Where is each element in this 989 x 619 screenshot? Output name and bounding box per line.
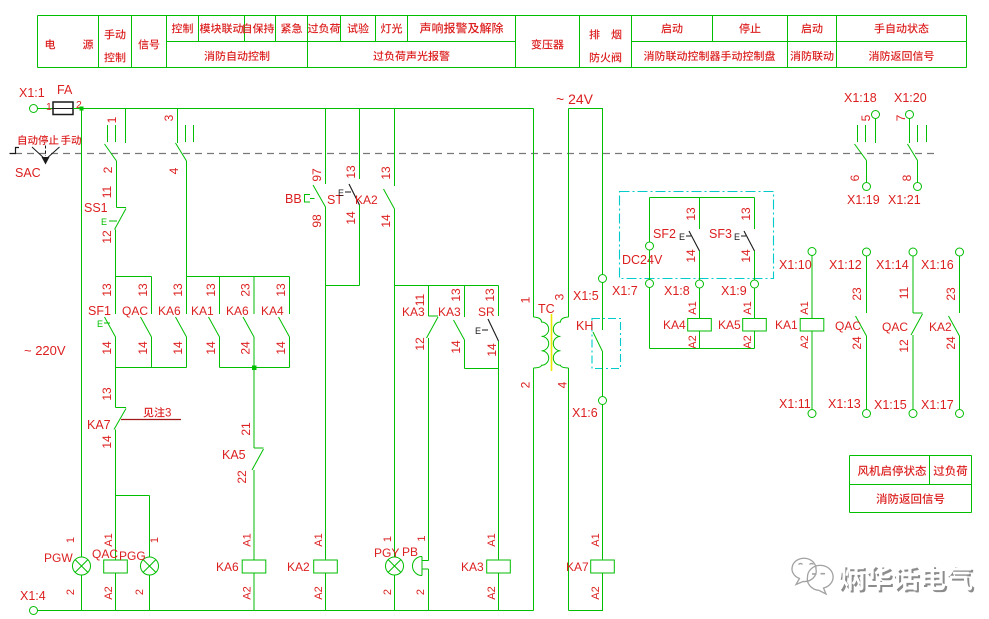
branch rail A top (SS1 output) <box>116 276 152 278</box>
svg-text:X1:1: X1:1 <box>19 86 45 100</box>
start button SF3 (black blade, E actuator) <box>709 198 755 281</box>
svg-text:14: 14 <box>171 341 185 355</box>
relay coil KA2 <box>287 533 337 599</box>
svg-text:KA3: KA3 <box>461 560 484 574</box>
wire QAC coil to bottom rail <box>115 573 117 611</box>
svg-text:5: 5 <box>859 114 873 121</box>
wire lamp PGY to bottom rail <box>394 575 396 611</box>
svg-text:X1:18: X1:18 <box>844 91 877 105</box>
svg-text:11: 11 <box>413 293 427 306</box>
svg-text:14: 14 <box>485 343 499 357</box>
svg-text:11: 11 <box>897 286 911 299</box>
svg-text:A1: A1 <box>486 533 498 546</box>
svg-text:2: 2 <box>134 589 146 595</box>
DC24V bus bar <box>650 197 755 199</box>
start button SF2 (black blade, E actuator) <box>653 198 700 281</box>
wire down to KA2 coil <box>325 286 327 561</box>
selector contact 5-6 (SAC) <box>848 114 876 182</box>
svg-text:BB: BB <box>285 192 302 206</box>
selector SAC position labels <box>15 135 81 180</box>
svg-text:X1:6: X1:6 <box>572 406 598 420</box>
svg-text:A2: A2 <box>313 586 325 599</box>
svg-text:1: 1 <box>65 537 77 543</box>
terminal X1:7 <box>612 280 654 299</box>
title block table (top header) <box>38 16 967 68</box>
svg-text:SAC: SAC <box>15 166 41 180</box>
svg-text:KA7: KA7 <box>87 418 111 432</box>
wire TC secondary pin3 up to 24V bar <box>568 109 570 318</box>
wire X1:8 to KA4 coil <box>699 288 701 319</box>
wire KA6 coil to bottom rail <box>253 573 255 611</box>
svg-text:E: E <box>679 232 685 242</box>
svg-text:X1:4: X1:4 <box>20 589 46 603</box>
watermark text <box>839 565 975 592</box>
selector contact 1-2 (SAC) <box>101 109 126 174</box>
svg-text:4: 4 <box>167 167 181 174</box>
svg-text:KH: KH <box>576 319 593 333</box>
svg-text:97: 97 <box>310 168 324 182</box>
branch rail A bottom <box>116 367 187 369</box>
svg-text:7: 7 <box>894 114 908 121</box>
svg-text:13: 13 <box>379 166 393 180</box>
svg-text:DC24V: DC24V <box>622 253 663 267</box>
svg-text:14: 14 <box>136 341 150 355</box>
wire KA7 coil to branch rail <box>602 573 604 611</box>
relay coil QAC <box>92 533 127 599</box>
svg-text:X1:21: X1:21 <box>888 193 921 207</box>
transformer core <box>551 314 553 371</box>
svg-text:A1: A1 <box>590 533 602 546</box>
wire left column from rail down to lamp PGW <box>81 109 83 558</box>
svg-text:24: 24 <box>239 341 253 355</box>
svg-text:SR: SR <box>478 305 495 319</box>
svg-text:12: 12 <box>413 337 427 351</box>
terminal X1:5 <box>573 275 607 304</box>
svg-text:A2: A2 <box>590 586 602 599</box>
thermal contact BB 97-98 (NO) <box>285 109 326 286</box>
KA7 branch bottom rail <box>569 610 604 612</box>
svg-text:A2: A2 <box>486 586 498 599</box>
wire bus to DC24V terminal <box>649 198 651 243</box>
wire lamp PGG to bottom rail <box>149 575 151 611</box>
svg-text:13: 13 <box>274 283 288 297</box>
svg-text:1: 1 <box>149 537 161 543</box>
svg-text:E: E <box>101 217 107 227</box>
24V supply bar <box>569 108 604 110</box>
svg-text:3: 3 <box>162 114 176 121</box>
wire TC secondary pin4 down <box>568 368 570 611</box>
selector contact 3-4 (SAC) <box>162 109 194 175</box>
terminal X1:8 <box>664 280 704 298</box>
wire branch to lamp PGG <box>116 496 150 558</box>
svg-text:KA3: KA3 <box>438 305 461 319</box>
junction dot on rail B bottom <box>252 366 257 371</box>
terminal X1:19 <box>847 183 880 208</box>
wire top rail to TC primary <box>533 109 535 318</box>
svg-text:13: 13 <box>100 283 114 297</box>
wire KA3/SR output rail <box>465 368 499 370</box>
svg-text:KA4: KA4 <box>663 318 686 332</box>
contact QAC 11-12 (NC) <box>882 256 923 410</box>
wire KA3 coil to bottom rail <box>498 573 500 611</box>
svg-text:14: 14 <box>684 249 698 263</box>
contact KA2 13-14 (NO) <box>355 109 395 286</box>
svg-text:13: 13 <box>171 283 185 297</box>
wire X1:5 to KH contact <box>602 283 604 331</box>
svg-text:~ 24V: ~ 24V <box>556 91 594 107</box>
svg-text:14: 14 <box>204 341 218 355</box>
indicator lamp PGG <box>119 537 161 595</box>
svg-text:A1: A1 <box>313 533 325 546</box>
terminal X1:20 <box>894 91 927 119</box>
svg-text:3: 3 <box>165 408 171 420</box>
wire selector 1-2 to SS1 <box>116 161 118 208</box>
svg-text:KA6: KA6 <box>216 560 239 574</box>
svg-text:13: 13 <box>739 207 753 221</box>
relay coil KA3 <box>461 533 510 599</box>
svg-text:E: E <box>475 326 481 336</box>
svg-text:98: 98 <box>310 214 324 228</box>
svg-text:KA2: KA2 <box>287 560 310 574</box>
svg-text:X1:8: X1:8 <box>664 284 690 298</box>
svg-text:QAC: QAC <box>835 319 861 333</box>
svg-text:KA1: KA1 <box>191 304 214 318</box>
svg-text:21: 21 <box>239 422 253 436</box>
relay coil KA4 <box>663 301 711 348</box>
wire DC24V terminal to X1:7 <box>649 250 651 280</box>
terminal X1:12 <box>829 248 871 272</box>
svg-text:A2: A2 <box>103 586 115 599</box>
wire buzzer PB to bottom rail <box>428 569 430 611</box>
wire X1:1 to fuse FA <box>38 108 54 110</box>
svg-text:QAC: QAC <box>122 304 148 318</box>
fire controller panel dash-dot enclosure DC24V <box>620 192 774 279</box>
svg-text:SF2: SF2 <box>653 227 676 241</box>
test button ST (black blade with E actuator) <box>327 109 360 286</box>
wire fuse to top rail junction <box>73 108 82 110</box>
header cell labels <box>46 22 934 62</box>
svg-text:X1:10: X1:10 <box>779 258 812 272</box>
svg-text:PB: PB <box>402 545 418 559</box>
svg-text:13: 13 <box>483 288 497 302</box>
svg-text:A2: A2 <box>742 335 754 348</box>
wire down to lamp PGY <box>394 286 396 558</box>
svg-text:14: 14 <box>379 214 393 228</box>
svg-text:X1:13: X1:13 <box>828 397 861 411</box>
svg-text:13: 13 <box>100 387 114 401</box>
svg-text:2: 2 <box>65 589 77 595</box>
branch rail B bottom <box>220 367 290 369</box>
wire BB-ST junction rail <box>326 285 360 287</box>
svg-text:2: 2 <box>519 381 533 388</box>
svg-text:12: 12 <box>100 230 114 244</box>
wire X1:6 down to KA7 coil <box>602 405 604 561</box>
svg-text:X1:15: X1:15 <box>874 398 907 412</box>
svg-text:A2: A2 <box>687 335 699 348</box>
svg-text:FA: FA <box>57 83 73 97</box>
svg-text:PGG: PGG <box>119 549 146 563</box>
terminal X1:15 <box>874 398 917 418</box>
alarm branch feed rail <box>395 285 499 287</box>
svg-text:14: 14 <box>739 249 753 263</box>
svg-text:14: 14 <box>449 340 463 354</box>
svg-text:1: 1 <box>105 116 119 123</box>
svg-text:KA7: KA7 <box>566 560 589 574</box>
svg-text:E: E <box>97 319 103 329</box>
note label 见注3 with underline <box>121 407 181 419</box>
selector SAC symbol (manual-stop-auto) <box>10 146 60 165</box>
svg-text:14: 14 <box>274 341 288 355</box>
svg-text:SF1: SF1 <box>88 304 111 318</box>
thermostat contact KH (NO) in dash-dot box <box>576 319 621 369</box>
svg-text:PGY: PGY <box>374 546 399 560</box>
transformer TC primary winding (pins 1-2) <box>519 296 555 388</box>
svg-text:13: 13 <box>344 165 358 179</box>
contact KA2 23-24 (NO) <box>929 256 960 410</box>
reset button SR (black blade with E actuator) <box>475 286 499 369</box>
contact KA3 13-14 (NO) <box>438 286 465 369</box>
svg-text:2: 2 <box>101 166 115 173</box>
wire KH to X1:6 <box>602 352 604 397</box>
svg-text:11: 11 <box>100 185 114 198</box>
svg-text:X1:7: X1:7 <box>612 284 638 298</box>
contact KA6 23-24 (NO) <box>226 277 254 368</box>
svg-text:1: 1 <box>382 536 394 542</box>
svg-text:KA1: KA1 <box>775 318 798 332</box>
junction dot at top rail <box>80 107 84 111</box>
svg-text:A1: A1 <box>242 533 254 546</box>
terminal X1:13 <box>828 397 871 418</box>
svg-text:KA5: KA5 <box>718 318 741 332</box>
svg-text:X1:19: X1:19 <box>847 193 880 207</box>
terminal X1:10 <box>779 248 816 273</box>
svg-text:6: 6 <box>848 174 862 181</box>
svg-text:KA6: KA6 <box>158 304 181 318</box>
svg-text:SS1: SS1 <box>84 201 108 215</box>
svg-text:23: 23 <box>239 283 253 297</box>
svg-text:QAC: QAC <box>882 320 908 334</box>
top supply rail ~220V <box>82 108 534 110</box>
svg-text:13: 13 <box>136 283 150 297</box>
svg-text:13: 13 <box>449 288 463 302</box>
svg-text:1: 1 <box>46 101 52 113</box>
wire KA2 coil to bottom rail <box>325 573 327 611</box>
svg-text:KA6: KA6 <box>226 304 249 318</box>
wire 24V bar down to X1:5 <box>602 109 604 275</box>
terminal X1:16 <box>921 248 964 272</box>
svg-text:A2: A2 <box>242 586 254 599</box>
wire down to KA3 coil <box>498 369 500 561</box>
relay coil KA1 <box>775 301 824 348</box>
svg-text:X1:17: X1:17 <box>921 398 954 412</box>
wire junction to KA5 contact <box>253 368 255 449</box>
terminal X1:1 <box>19 86 45 113</box>
terminal X1:17 <box>921 398 964 418</box>
wire KA1 coil to X1:11 <box>811 331 813 410</box>
contact QAC 23-24 (NO) <box>835 256 867 410</box>
branch rail B top (manual feed) <box>187 276 290 278</box>
indicator lamp PGW <box>44 537 91 595</box>
terminal X1:6 <box>572 397 607 421</box>
svg-text:E: E <box>734 232 740 242</box>
wire KA5 to coil KA6 <box>253 470 255 560</box>
svg-text:3: 3 <box>553 293 567 300</box>
relay coil KA7 <box>566 533 614 599</box>
contact KA7 13-14 (note 3) <box>87 368 126 561</box>
svg-text:8: 8 <box>900 174 914 181</box>
svg-text:2: 2 <box>382 589 394 595</box>
terminal X1:9 <box>721 280 759 298</box>
wire lamp PGW to bottom rail <box>81 575 83 611</box>
bottom return rail <box>38 610 534 612</box>
svg-text:4: 4 <box>556 381 570 388</box>
svg-text:22: 22 <box>235 470 249 484</box>
svg-text:X1:20: X1:20 <box>894 91 927 105</box>
terminal X1:11 <box>779 397 816 418</box>
wire KA3 NC to buzzer PB <box>428 338 430 561</box>
svg-text:E: E <box>338 188 344 198</box>
contact KA5 21-22 (NC) <box>222 422 264 484</box>
wire TC primary to bottom rail <box>533 368 535 611</box>
contact KA1 13-14 (NO) <box>191 277 220 368</box>
svg-text:KA2: KA2 <box>355 193 378 207</box>
wire selector 3-4 down to manual branch rail <box>186 161 188 277</box>
svg-text:~ 220V: ~ 220V <box>24 343 66 358</box>
wire X1:9 to KA5 coil <box>754 288 756 319</box>
svg-text:A1: A1 <box>103 533 115 546</box>
common return wire X1:7 to coil A2 bus <box>650 288 755 349</box>
terminal X1:21 <box>888 183 922 208</box>
indicator lamp PGY <box>374 536 404 595</box>
buzzer PB <box>402 535 429 595</box>
svg-text:14: 14 <box>100 341 114 355</box>
svg-text:X1:12: X1:12 <box>829 258 862 272</box>
svg-text:KA2: KA2 <box>929 320 952 334</box>
svg-text:14: 14 <box>100 435 114 449</box>
feedback signal legend table <box>850 456 972 513</box>
svg-text:23: 23 <box>944 287 958 301</box>
svg-text:X1:11: X1:11 <box>779 397 811 411</box>
svg-text:A2: A2 <box>799 335 811 348</box>
svg-text:SF3: SF3 <box>709 227 732 241</box>
watermark logo (chat bubbles) <box>792 558 833 594</box>
contact QAC 13-14 (NO) <box>122 277 152 368</box>
svg-text:X1:16: X1:16 <box>921 258 954 272</box>
svg-text:KA5: KA5 <box>222 448 246 462</box>
legend labels <box>858 465 967 504</box>
emergency stop button SS1 (NC, 11-12) <box>84 185 126 276</box>
svg-text:A1: A1 <box>742 301 754 314</box>
svg-text:2: 2 <box>415 589 427 595</box>
svg-text:X1:9: X1:9 <box>721 284 747 298</box>
relay coil KA5 <box>718 301 766 348</box>
svg-text:1: 1 <box>519 296 533 303</box>
contact KA4 13-14 (NO) <box>261 277 290 368</box>
selector SAC mechanical linkage dashed line <box>15 153 935 155</box>
selector contact 7-8 (SAC) <box>894 114 927 182</box>
transformer TC secondary winding (pins 3-4) <box>553 293 570 388</box>
relay coil KA6 <box>216 533 266 599</box>
svg-text:13: 13 <box>204 283 218 297</box>
wire X1:10 to KA1 coil <box>811 256 813 319</box>
svg-text:X1:5: X1:5 <box>573 289 599 303</box>
svg-text:24: 24 <box>850 336 864 350</box>
terminal X1:18 <box>844 91 880 119</box>
terminal X1:14 <box>876 248 917 272</box>
svg-text:23: 23 <box>850 287 864 301</box>
svg-text:12: 12 <box>897 339 911 353</box>
svg-text:14: 14 <box>344 211 358 225</box>
svg-text:PGW: PGW <box>44 551 73 565</box>
svg-text:A1: A1 <box>799 301 811 314</box>
terminal X1:4 <box>20 589 46 615</box>
fuse FA <box>46 83 82 115</box>
contact KA6 13-14 (NO) <box>158 277 187 368</box>
svg-text:13: 13 <box>684 207 698 221</box>
contact KA3 11-12 (NC) <box>402 286 438 351</box>
svg-text:X1:14: X1:14 <box>876 258 909 272</box>
svg-text:A1: A1 <box>687 301 699 314</box>
svg-text:QAC: QAC <box>92 547 118 561</box>
svg-text:1: 1 <box>416 535 428 541</box>
start button SF1 (NO, 13-14, with E actuator) <box>88 277 116 368</box>
terminal DC24V <box>622 242 663 267</box>
svg-text:24: 24 <box>944 336 958 350</box>
svg-text:TC: TC <box>538 302 555 316</box>
svg-text:KA4: KA4 <box>261 304 284 318</box>
